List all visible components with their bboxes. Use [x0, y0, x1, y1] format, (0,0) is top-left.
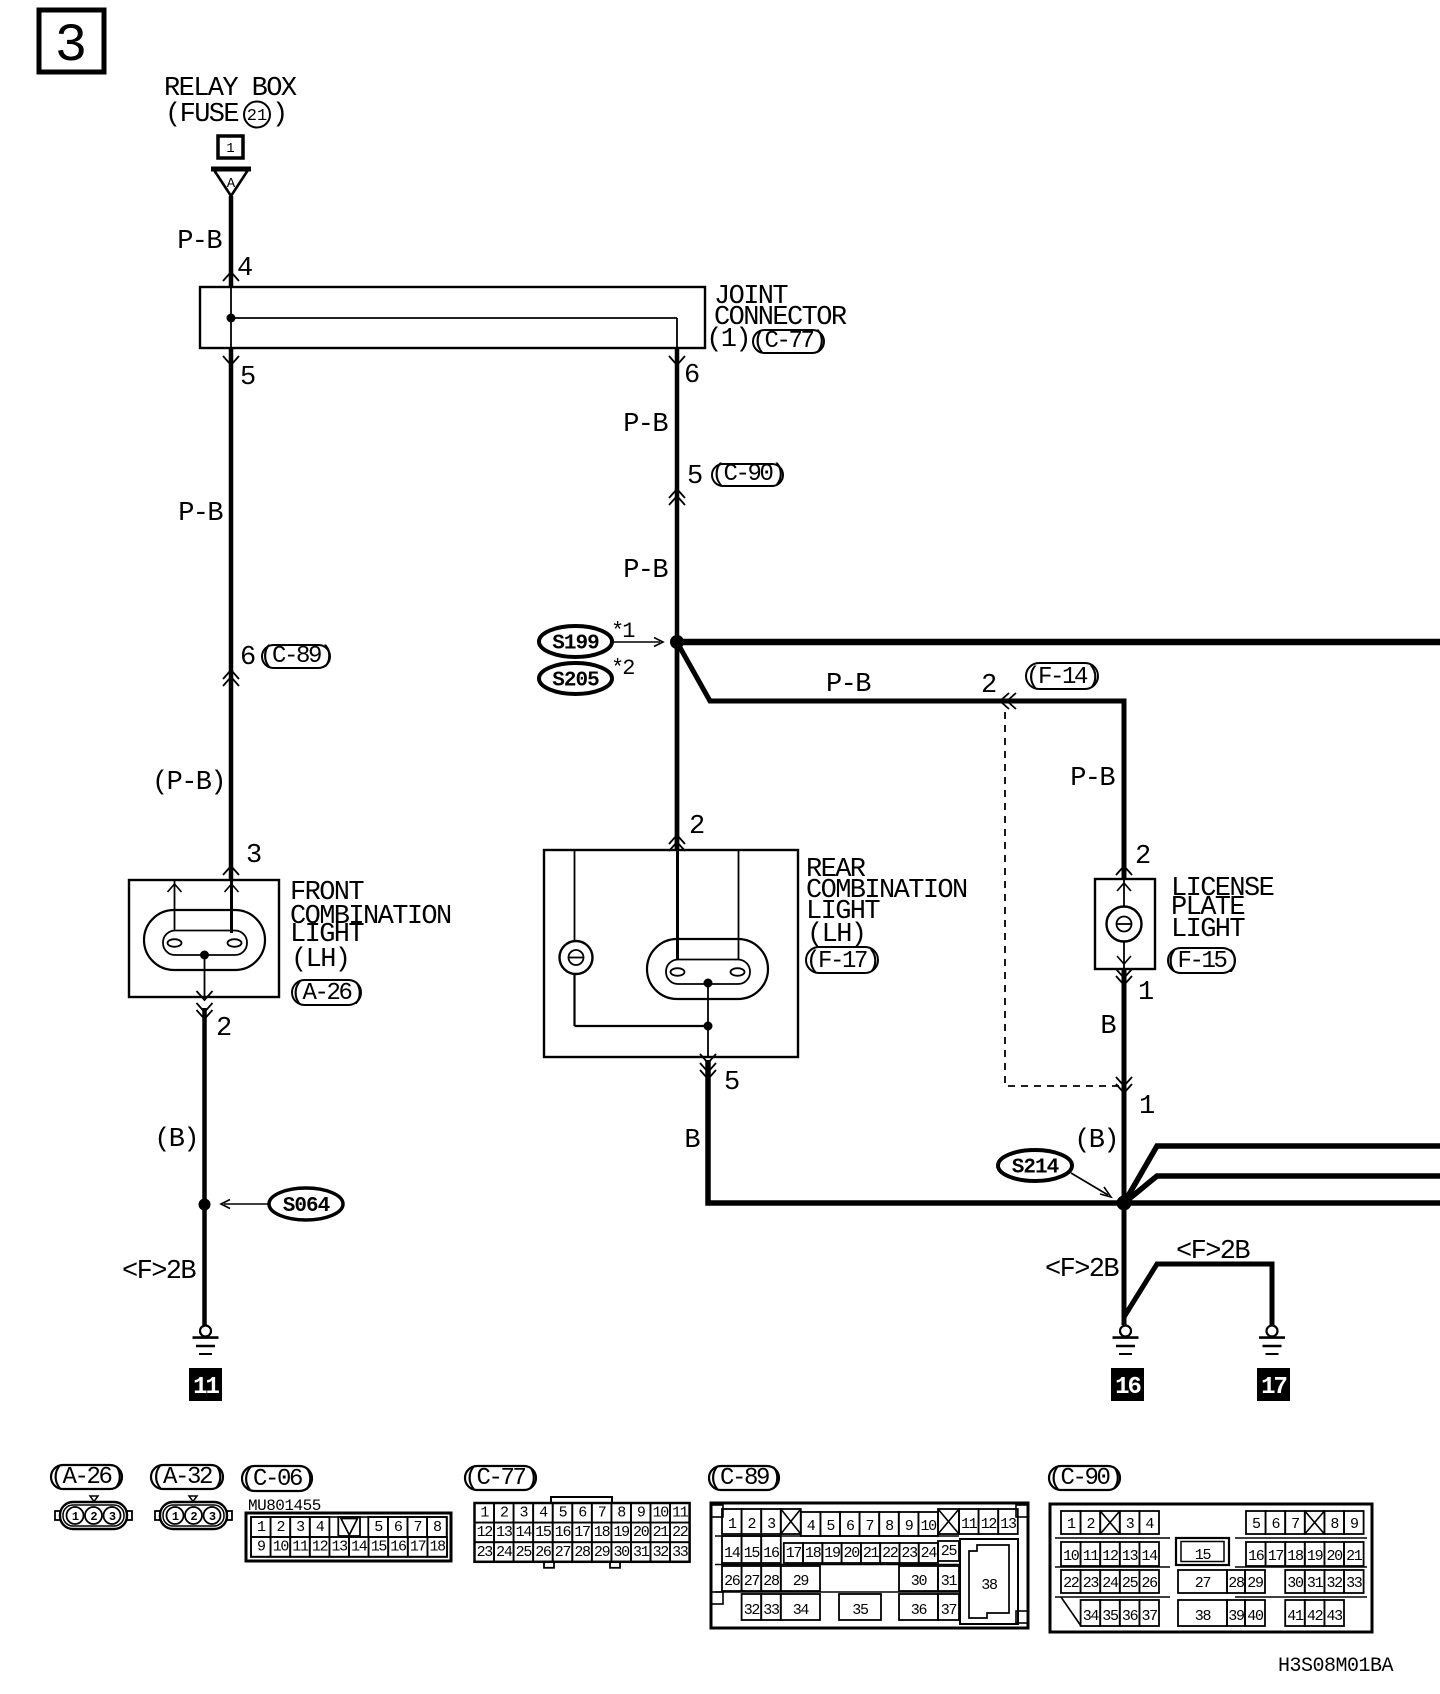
svg-text:4: 4: [1145, 1516, 1154, 1533]
A-32 pins 1 2 3: [167, 1507, 184, 1524]
svg-text:38: 38: [1195, 1608, 1212, 1625]
svg-text:14: 14: [724, 1545, 741, 1562]
wire P-B relay to joint connector: [229, 196, 234, 288]
svg-text:18: 18: [429, 1539, 446, 1556]
joint connector box C-77: [200, 287, 705, 348]
svg-text:15: 15: [744, 1545, 761, 1562]
wire B rear light to S214: [708, 1060, 1440, 1203]
svg-text:5: 5: [559, 1505, 568, 1522]
svg-text:33: 33: [672, 1544, 689, 1561]
svg-text:(A-26): (A-26): [290, 980, 362, 1007]
arrow up at pin 3: [223, 866, 239, 875]
connector C-06 pin grid: [246, 1513, 451, 1561]
svg-text:11: 11: [961, 1516, 978, 1533]
svg-text:25: 25: [1122, 1575, 1139, 1592]
svg-text:2: 2: [689, 812, 704, 842]
svg-text:*1: *1: [611, 619, 635, 644]
svg-text:26: 26: [535, 1544, 552, 1561]
svg-text:4: 4: [237, 254, 252, 284]
splice S064: [269, 1188, 343, 1220]
svg-text:20: 20: [1326, 1548, 1343, 1565]
svg-text:16: 16: [1248, 1548, 1265, 1565]
rear light wire left bulb top: [574, 851, 576, 941]
svg-text:11: 11: [1083, 1548, 1100, 1565]
svg-text:1: 1: [257, 1519, 266, 1536]
svg-text:P-B: P-B: [623, 410, 668, 440]
splice S199: [539, 626, 612, 657]
A-26 pins 1 2 3: [67, 1507, 84, 1524]
A-26 connector body: [60, 1502, 127, 1529]
svg-text:*2: *2: [611, 656, 634, 681]
arrow down below front light: [197, 991, 213, 1000]
arrow up license top: [1116, 866, 1132, 875]
ground 11 symbol: [200, 1326, 211, 1337]
svg-text:(C-90): (C-90): [1048, 1465, 1120, 1492]
svg-text:7: 7: [1291, 1516, 1299, 1533]
ground 17 box: [1257, 1368, 1290, 1401]
stadium F-17: [806, 947, 878, 973]
svg-text:17: 17: [786, 1545, 802, 1562]
svg-text:5: 5: [687, 462, 702, 492]
svg-text:1: 1: [172, 1510, 179, 1524]
svg-text:A: A: [227, 176, 236, 192]
svg-text:12: 12: [1102, 1548, 1118, 1565]
svg-text:3: 3: [1126, 1516, 1135, 1533]
svg-text:29: 29: [594, 1544, 610, 1561]
svg-text:17: 17: [410, 1539, 426, 1556]
svg-text:13: 13: [1000, 1516, 1017, 1533]
svg-text:26: 26: [1141, 1575, 1158, 1592]
svg-text:11: 11: [292, 1539, 309, 1556]
wire branch to F-14: [678, 644, 1124, 879]
front light internal wire left: [174, 881, 176, 931]
svg-text:27: 27: [744, 1573, 760, 1590]
junction dot S199: [670, 635, 684, 649]
svg-text:P-B: P-B: [178, 499, 223, 529]
svg-text:6: 6: [846, 1518, 855, 1535]
svg-text:S064: S064: [283, 1195, 330, 1218]
svg-text:31: 31: [941, 1573, 958, 1590]
svg-text:7: 7: [598, 1505, 606, 1522]
svg-text:13: 13: [496, 1524, 513, 1541]
stadium label A-26: [51, 1465, 122, 1489]
svg-text:24: 24: [1102, 1575, 1119, 1592]
svg-text:13: 13: [331, 1539, 348, 1556]
svg-text:27: 27: [555, 1544, 571, 1561]
svg-text:(B): (B): [1074, 1126, 1118, 1156]
wire (B) front light to ground: [202, 1008, 207, 1325]
svg-text:25: 25: [941, 1543, 958, 1560]
svg-text:4: 4: [539, 1505, 548, 1522]
svg-text:1: 1: [1139, 1092, 1154, 1122]
bus branch upper right: [1124, 1146, 1440, 1203]
bus wire right from S199: [677, 639, 1440, 646]
svg-text:2: 2: [500, 1505, 508, 1522]
svg-text:(P-B): (P-B): [152, 768, 225, 798]
svg-text:15: 15: [1195, 1547, 1212, 1564]
svg-text:6: 6: [684, 361, 699, 391]
svg-text:2: 2: [190, 1510, 197, 1524]
svg-text:37: 37: [941, 1602, 957, 1619]
svg-text:15: 15: [535, 1524, 552, 1541]
svg-text:31: 31: [1307, 1575, 1324, 1592]
svg-text:(C-77): (C-77): [752, 328, 824, 355]
svg-text:22: 22: [1063, 1575, 1079, 1592]
svg-text:3: 3: [767, 1516, 776, 1533]
arrow up at pin 4: [223, 272, 239, 281]
svg-text:35: 35: [852, 1602, 869, 1619]
double arrow left F-14: [1000, 693, 1009, 709]
front light internal wire right: [230, 881, 233, 933]
svg-text:24: 24: [496, 1544, 513, 1561]
svg-text:S199: S199: [552, 633, 599, 656]
license light wire bottom: [1123, 941, 1125, 968]
svg-text:8: 8: [1330, 1516, 1339, 1533]
svg-text:8: 8: [885, 1518, 894, 1535]
svg-text:21: 21: [247, 107, 267, 126]
svg-text:(FUSE: (FUSE: [165, 100, 238, 130]
svg-text:34: 34: [1083, 1608, 1100, 1625]
svg-text:9: 9: [257, 1539, 265, 1556]
double arrow down below license: [1116, 969, 1132, 978]
ground 16 box: [1111, 1368, 1144, 1401]
rear combination light box: [544, 850, 798, 1057]
svg-text:30: 30: [613, 1544, 630, 1561]
joint connector bus: [230, 288, 232, 347]
svg-text:P-B: P-B: [1070, 764, 1115, 794]
svg-text:9: 9: [1350, 1516, 1358, 1533]
svg-text:6: 6: [394, 1519, 403, 1536]
svg-text:2: 2: [1087, 1516, 1095, 1533]
svg-text:35: 35: [1102, 1608, 1119, 1625]
svg-text:17: 17: [1261, 1374, 1286, 1401]
svg-text:25: 25: [516, 1544, 533, 1561]
double arrow up rear light: [669, 835, 685, 844]
svg-text:4: 4: [807, 1518, 816, 1535]
svg-text:28: 28: [574, 1544, 591, 1561]
svg-text:36: 36: [1122, 1608, 1139, 1625]
svg-text:1: 1: [72, 1510, 79, 1524]
rear light wire left bulb bottom: [573, 974, 575, 1026]
svg-text:37: 37: [1141, 1608, 1157, 1625]
double arrow up C-89: [223, 670, 239, 679]
svg-text:(F-17): (F-17): [806, 948, 878, 975]
svg-text:3: 3: [296, 1519, 305, 1536]
connector C-90 pin grid: [1050, 1504, 1372, 1632]
svg-text:5: 5: [374, 1519, 383, 1536]
arrow down below rear light: [700, 1054, 716, 1063]
svg-text:23: 23: [477, 1544, 494, 1561]
svg-text:13: 13: [1122, 1548, 1139, 1565]
svg-text:1: 1: [480, 1505, 489, 1522]
svg-text:21: 21: [863, 1545, 880, 1562]
svg-text:34: 34: [793, 1602, 810, 1619]
svg-text:28: 28: [1228, 1575, 1245, 1592]
svg-text:15: 15: [371, 1539, 388, 1556]
stadium F-14: [1026, 663, 1098, 689]
connector C-89 pin grid: [711, 1503, 1028, 1628]
svg-text:(F-14): (F-14): [1026, 664, 1098, 691]
svg-text:B: B: [684, 1126, 700, 1156]
svg-text:2: 2: [216, 1014, 231, 1044]
page number box 3: [39, 10, 104, 72]
svg-text:43: 43: [1326, 1608, 1343, 1625]
ground 16 symbol: [1120, 1326, 1131, 1337]
svg-text:8: 8: [617, 1505, 626, 1522]
svg-text:16: 16: [390, 1539, 407, 1556]
junction dot S064: [199, 1199, 211, 1211]
svg-text:30: 30: [911, 1573, 928, 1590]
svg-text:LIGHT: LIGHT: [1171, 915, 1245, 945]
license plate light box: [1095, 879, 1155, 969]
svg-text:33: 33: [1346, 1575, 1363, 1592]
rear light bulb junction: [704, 979, 713, 988]
svg-text:2: 2: [1135, 842, 1150, 872]
wire P-B S199 to rear light: [675, 648, 680, 850]
svg-text:12: 12: [981, 1516, 997, 1533]
svg-text:6: 6: [240, 643, 255, 673]
svg-text:<F>2B: <F>2B: [1045, 1255, 1119, 1285]
splice S214: [998, 1150, 1072, 1181]
svg-text:P-B: P-B: [826, 670, 871, 700]
svg-text:(A-32): (A-32): [151, 1464, 223, 1491]
svg-text:(C-89): (C-89): [260, 643, 332, 670]
svg-text:(C-90): (C-90): [711, 461, 783, 488]
svg-text:(C-89): (C-89): [708, 1465, 780, 1492]
stadium C-77: [753, 330, 824, 353]
stadium label C-90: [1049, 1466, 1120, 1490]
svg-text:32: 32: [653, 1544, 669, 1561]
svg-text:3: 3: [520, 1505, 529, 1522]
svg-text:26: 26: [724, 1573, 741, 1590]
svg-text:5: 5: [724, 1068, 739, 1098]
svg-text:P-B: P-B: [623, 556, 668, 586]
svg-text:2: 2: [90, 1510, 97, 1524]
arrow down at pin 5: [223, 356, 239, 365]
svg-text:18: 18: [1287, 1548, 1304, 1565]
svg-text:14: 14: [516, 1524, 533, 1541]
svg-text:P-B: P-B: [177, 227, 222, 257]
svg-text:3: 3: [55, 16, 87, 77]
svg-text:(F-15): (F-15): [1165, 948, 1237, 975]
svg-text:14: 14: [1141, 1548, 1158, 1565]
junction dot S214: [1117, 1196, 1132, 1211]
stadium C-89: [262, 645, 330, 668]
svg-text:2: 2: [277, 1519, 285, 1536]
svg-text:H3S08M01BA: H3S08M01BA: [1278, 1655, 1394, 1678]
bus branch middle right: [1124, 1176, 1440, 1203]
svg-text:9: 9: [637, 1505, 645, 1522]
stadium A-26: [292, 980, 361, 1005]
double arrow down rear light: [700, 1063, 716, 1072]
S214 arrow: [1071, 1173, 1108, 1195]
svg-text:10: 10: [1063, 1548, 1080, 1565]
svg-text:S205: S205: [552, 670, 599, 693]
svg-text:(A-26): (A-26): [50, 1464, 122, 1491]
svg-text:4: 4: [316, 1519, 325, 1536]
double arrow up C-90: [669, 489, 685, 498]
svg-text:1: 1: [1067, 1516, 1076, 1533]
svg-text:32: 32: [1326, 1575, 1342, 1592]
license light bulb: [1107, 907, 1142, 942]
svg-text:16: 16: [763, 1545, 780, 1562]
svg-text:1: 1: [226, 141, 234, 157]
stadium label A-32: [151, 1465, 223, 1489]
front combination light box: [129, 880, 279, 997]
svg-text:(LH): (LH): [291, 945, 349, 975]
svg-text:6: 6: [1272, 1516, 1281, 1533]
svg-text:3: 3: [246, 841, 261, 871]
ground 17 symbol: [1267, 1326, 1278, 1337]
license light wire top: [1123, 880, 1125, 907]
svg-text:11: 11: [193, 1374, 219, 1401]
svg-text:16: 16: [555, 1524, 572, 1541]
svg-text:29: 29: [793, 1573, 809, 1590]
svg-text:8: 8: [433, 1519, 442, 1536]
svg-text:(B): (B): [154, 1125, 198, 1155]
S064 arrow: [224, 1203, 268, 1205]
svg-text:3: 3: [209, 1510, 216, 1524]
svg-text:12: 12: [477, 1524, 493, 1541]
svg-text:1: 1: [728, 1516, 737, 1533]
wire P-B joint to front light: [229, 348, 234, 880]
svg-text:19: 19: [613, 1524, 629, 1541]
svg-text:3: 3: [109, 1510, 116, 1524]
svg-text:30: 30: [1287, 1575, 1304, 1592]
front light dual filament bulb: [144, 910, 265, 970]
wire P-B joint to S199: [675, 348, 680, 850]
svg-text:10: 10: [920, 1518, 937, 1535]
svg-text:19: 19: [1307, 1548, 1323, 1565]
relay box pin 1: [218, 136, 243, 158]
wire B license to S214: [1122, 969, 1127, 1325]
svg-text:2: 2: [981, 671, 996, 701]
svg-text:38: 38: [981, 1577, 998, 1594]
svg-text:10: 10: [273, 1539, 290, 1556]
svg-text:40: 40: [1247, 1608, 1264, 1625]
A-32 connector body: [160, 1502, 227, 1529]
svg-text:24: 24: [921, 1545, 938, 1562]
svg-text:27: 27: [1195, 1575, 1211, 1592]
svg-text:23: 23: [1083, 1575, 1100, 1592]
svg-text:(1): (1): [706, 325, 750, 355]
svg-text:S214: S214: [1012, 1157, 1059, 1180]
wire to ground 17: [1124, 1264, 1272, 1326]
rear light dual filament bulb: [647, 939, 768, 999]
A-32 connector triangle: [189, 1496, 197, 1502]
dashed wire F-14 to license: [1005, 712, 1120, 1086]
rear light internal wire right: [738, 851, 740, 959]
svg-text:41: 41: [1287, 1608, 1304, 1625]
svg-text:7: 7: [413, 1519, 421, 1536]
ground 11 box: [189, 1368, 222, 1401]
svg-text:1: 1: [1138, 978, 1153, 1008]
stadium label C-06: [242, 1466, 312, 1491]
svg-text:9: 9: [905, 1518, 913, 1535]
svg-text:16: 16: [1115, 1374, 1141, 1401]
svg-text:12: 12: [312, 1539, 328, 1556]
svg-text:22: 22: [672, 1524, 688, 1541]
splice S205: [539, 663, 612, 694]
svg-text:17: 17: [1268, 1548, 1284, 1565]
svg-text:7: 7: [866, 1518, 874, 1535]
double arrow down at dashed join: [1116, 1077, 1132, 1086]
svg-text:10: 10: [653, 1505, 670, 1522]
svg-text:21: 21: [653, 1524, 670, 1541]
stadium label C-77: [465, 1466, 536, 1490]
stadium F-15: [1168, 948, 1235, 973]
stadium label C-89: [709, 1466, 779, 1490]
svg-text:31: 31: [633, 1544, 650, 1561]
front light bulb junction: [200, 951, 209, 960]
svg-text:(C-06): (C-06): [241, 1466, 313, 1493]
fuse 21 circled: [244, 102, 270, 128]
arrow down at pin 6: [669, 356, 685, 365]
svg-text:32: 32: [744, 1602, 760, 1619]
rear light junction dot lower: [704, 1022, 713, 1031]
svg-text:29: 29: [1247, 1575, 1263, 1592]
rear light internal wire mid: [676, 851, 679, 959]
svg-text:17: 17: [574, 1524, 590, 1541]
svg-text:(C-77): (C-77): [464, 1465, 536, 1492]
svg-text:28: 28: [763, 1573, 780, 1590]
svg-text:6: 6: [578, 1505, 587, 1522]
svg-text:39: 39: [1228, 1608, 1244, 1625]
svg-text:20: 20: [844, 1545, 861, 1562]
svg-text:20: 20: [633, 1524, 650, 1541]
svg-text:18: 18: [805, 1545, 822, 1562]
svg-text:33: 33: [763, 1602, 780, 1619]
svg-text:): ): [272, 100, 287, 130]
svg-text:11: 11: [672, 1505, 689, 1522]
S199 arrow: [613, 641, 660, 643]
svg-text:5: 5: [240, 363, 255, 393]
stadium C-90: [712, 464, 783, 486]
svg-text:2: 2: [748, 1516, 756, 1533]
svg-text:42: 42: [1307, 1608, 1323, 1625]
rear light small bulb: [560, 941, 593, 974]
svg-text:B: B: [1100, 1012, 1116, 1042]
svg-text:5: 5: [1252, 1516, 1261, 1533]
svg-text:19: 19: [824, 1545, 840, 1562]
svg-text:21: 21: [1346, 1548, 1363, 1565]
connector C-77 pin grid: [551, 1497, 612, 1503]
svg-text:22: 22: [882, 1545, 898, 1562]
double arrow down front light: [197, 1003, 213, 1012]
svg-text:36: 36: [911, 1602, 928, 1619]
svg-text:5: 5: [826, 1518, 835, 1535]
svg-text:14: 14: [351, 1539, 368, 1556]
junction dot in joint connector: [227, 314, 236, 323]
svg-text:23: 23: [901, 1545, 918, 1562]
A-26 connector triangle: [90, 1496, 98, 1502]
svg-text:18: 18: [594, 1524, 611, 1541]
svg-text:(LH): (LH): [807, 920, 865, 950]
connector triangle A: [214, 170, 248, 196]
svg-text:<F>2B: <F>2B: [122, 1257, 196, 1287]
